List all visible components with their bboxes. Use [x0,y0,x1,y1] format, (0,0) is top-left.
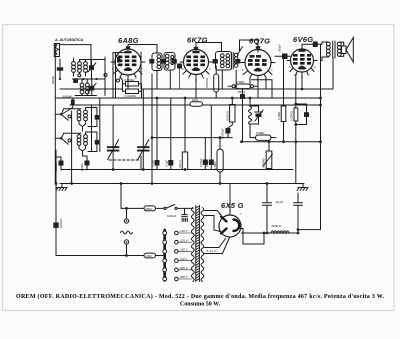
svg-text:6000 Ω: 6000 Ω [272,224,283,228]
svg-text:200pF: 200pF [51,76,55,84]
capacitor 2000pF left rail [53,184,58,256]
power transformer primary [191,208,194,282]
capacitor 5000pF [63,98,75,114]
fuse 0.5A [144,206,156,211]
svg-text:1000: 1000 [146,254,153,258]
wire left rail [55,150,57,184]
fuse 1000 lower [144,253,156,258]
label 0.1M [205,78,209,88]
svg-text:0500: 0500 [146,207,153,211]
mains terminal lower [124,240,128,244]
ring contact mid [104,74,120,83]
wire bottom rail [56,255,144,257]
choke tone box [217,138,223,184]
label 300pF [278,44,282,52]
wire verticals grid feed [105,53,128,98]
wire bus y141 [242,141,321,143]
speaker [339,38,353,63]
tube 6Q7G [241,46,275,79]
label 400pF [80,163,84,172]
svg-text:200 V: 200 V [179,266,189,270]
svg-text:6: 6 [242,68,244,72]
svg-text:0,5MΩ: 0,5MΩ [256,131,264,135]
resistor 250ohm cathode [182,98,187,170]
tube 6X5G pin numbers [219,212,242,233]
svg-text:125 V: 125 V [180,238,189,242]
label 250ohm [178,160,182,168]
tube 6K7G [180,47,212,78]
resistor 0.5M horizontal [250,135,276,140]
wire tube stems [128,52,302,184]
oscillator switch 2 [55,137,71,144]
svg-text:4: 4 [209,67,211,71]
label 200pF [51,76,55,84]
tube 6K7G label [187,36,208,45]
capacitor 0.05uF [203,138,208,170]
label 0.1M right [277,112,281,120]
wire 6Q7G pin stubs [250,78,266,90]
svg-text:1MΩ: 1MΩ [192,98,198,102]
field coil 6000ohm [271,231,289,233]
svg-text:4: 4 [314,65,316,69]
capacitor 250pF [240,89,245,142]
svg-text:0,05μF: 0,05μF [199,158,203,167]
svg-text:A. AUTOMATICA: A. AUTOMATICA [54,38,84,42]
oscillator coil 6Q7G area [249,98,252,138]
wire plate leads 6X5G [205,211,222,232]
label 0.25M volume [262,158,266,168]
wire left rail [54,44,56,184]
capacitor on bus [73,78,78,83]
capacitor 16uF first [263,184,272,234]
svg-text:280 V: 280 V [179,275,189,279]
trimmer capacitor antenna 2 [88,79,96,96]
wire bus y95 left [75,95,97,97]
label 0.1uF b [164,160,168,167]
wire fuse feed [121,184,144,209]
band switch ring 1 [78,74,81,77]
capacitor 300pF coupling [275,54,291,60]
wire bus y89 [60,88,333,90]
label 2000pF [59,218,63,228]
selector feed [156,255,164,257]
wire osc top A [61,108,97,116]
grid cap wire 6K7G [196,43,222,52]
antenna coil band 2 [80,79,89,96]
resistor 50000 vertical [230,98,235,122]
IFT1 tuning capacitors [149,59,177,64]
wire right rail [320,44,322,229]
mains switch [156,205,194,210]
label 0.25M right [289,111,293,121]
trimmer capacitor 6Q7G area [250,106,263,124]
wire bus y105 [70,104,321,106]
antenna trimmer bracket [54,44,59,57]
capacitor 400pF [83,156,90,170]
tube 6V6G [287,49,317,76]
grid cap wire 6A8G [128,45,157,54]
label 1000pF [167,214,177,218]
tube 6V6G label [293,35,313,44]
tube 6Q7G label [249,37,270,46]
IFT2 tuning capacitors [213,59,241,64]
junction dots bottom [55,182,300,257]
resistor 25M horizontal [228,84,257,89]
wire 6X5G top [229,184,231,216]
node dots y79 [59,78,98,80]
svg-text:3: 3 [135,76,137,80]
power transformer secondary [201,208,204,282]
wire heater leads 6X5G [205,238,230,254]
trimmer capacitor antenna 1 [88,60,96,79]
padder capacitor band1 [88,115,99,127]
tube 6K7G pin numbers [182,67,211,82]
label 5000pF [63,94,73,98]
wire osc right verticals [92,98,100,152]
oscillator switch 1 [55,113,71,120]
label 0.32M [125,78,135,82]
grid cap wire 6Q7G [240,40,259,51]
oscillator coil B [77,132,87,156]
wire osc left vertical [71,111,73,184]
capacitor 0.1uF c [209,105,214,170]
svg-text:250pF: 250pF [238,90,246,94]
label 4.1V [207,249,218,253]
tube 6X5G label [221,201,244,210]
label tone box [213,162,217,170]
wire osc top B [61,132,97,140]
svg-text:50000Ω: 50000Ω [226,111,230,121]
label 0.1uF a [151,160,155,167]
tube 6Q7G pin numbers [242,68,273,83]
tube 6A8G pin numbers [112,67,143,82]
resistor 1M horizontal [190,102,203,106]
label 0.042M [125,94,136,98]
capacitor 16uF second [294,193,303,233]
svg-text:0,1μF: 0,1μF [205,160,209,167]
svg-text:OREM (OFF. RADIO-ELETTROMECCAN: OREM (OFF. RADIO-ELETTROMECCANICA) - Mod… [16,293,385,300]
wire bus y233 [242,232,299,234]
svg-text:3: 3 [308,73,310,77]
resistor 0.042M under 6A8G [126,89,139,94]
mains cord squiggle [121,231,133,234]
svg-text:Consumo 50 W.: Consumo 50 W. [180,302,221,308]
wire bus y137 [152,137,232,139]
capacitor 3000pF [55,157,63,170]
wire cathode 6X5G [240,229,265,245]
wire resistor left link [120,77,126,91]
svg-text:0,1μF: 0,1μF [164,160,168,167]
IF transformer 1 [152,53,175,71]
oscillator coil A [77,108,87,132]
capacitor 0.1uF b [168,98,173,170]
svg-text:6: 6 [182,67,184,71]
wire coil top feed [86,59,106,62]
tube 6V6G pin numbers [289,65,316,79]
voltage tap terminals [175,231,192,281]
label 50000 [226,111,230,121]
tube 6A8G [111,46,145,78]
svg-text:140 V: 140 V [180,229,189,233]
label 6000ohm [272,224,283,228]
svg-text:0,1MΩ: 0,1MΩ [213,162,217,170]
antenna coil primary [72,58,76,76]
svg-text:6A8G: 6A8G [118,36,139,45]
label 0.5M [256,131,264,135]
svg-text:4: 4 [271,68,273,72]
output transformer [318,41,341,89]
svg-text:400pF: 400pF [80,163,84,172]
label 0.05uF [199,158,203,167]
svg-text:2000μF: 2000μF [59,218,63,228]
voltage tap labels [179,229,189,279]
resistor 0.1M right [281,59,286,142]
svg-text:0,042MΩ: 0,042MΩ [125,94,136,98]
svg-text:6V6G: 6V6G [293,35,313,44]
wire terminal upper link [125,207,128,219]
capacitor tone on plate [302,42,318,49]
svg-text:0,1μF: 0,1μF [151,160,155,167]
label fuse [146,207,153,211]
resistor 0.1M near 6Q7G [214,66,219,98]
svg-text:8 4,1 V: 8 4,1 V [207,249,218,253]
svg-text:0,25MΩ: 0,25MΩ [262,158,266,168]
svg-text:250 Ω: 250 Ω [178,160,182,168]
wire terminal lower link [126,244,128,255]
label 1M [192,98,198,102]
tube 6X5G [219,215,241,237]
wire bus y169 [61,169,293,171]
svg-text:6: 6 [289,65,291,69]
antenna lead wire [60,45,92,65]
svg-text:0,1MΩ: 0,1MΩ [277,112,281,120]
svg-text:300pF: 300pF [278,44,282,52]
label fuse lower [146,254,153,258]
svg-text:1000pF: 1000pF [167,214,177,218]
svg-text:16 μF: 16 μF [276,200,284,204]
mains terminal upper [124,219,128,223]
voltage selector strip [163,230,167,281]
tube 6A8G label [118,36,139,45]
capacitor grid 6A8G [117,57,120,63]
caption line 1 [16,293,385,300]
ground right [297,184,308,191]
resistor 0.32M under 6A8G [126,82,139,87]
capacitor 10000pF [225,122,232,138]
label 3000pF [54,161,58,171]
label 250pF [238,90,246,94]
wire bus y183 ground bus [60,183,304,185]
capacitor grid 6K7G [177,64,182,90]
label 0.1uF c [205,160,209,167]
antenna coil secondary [78,60,88,77]
svg-text:6K7G: 6K7G [187,36,208,45]
caption line 2 [180,302,221,308]
tuning capacitor oscillator [107,105,119,170]
capacitor 0.1uF a [155,98,160,170]
wire right rail bottom [298,229,321,231]
capacitor 200pF [57,59,63,79]
svg-text:6X5 G: 6X5 G [221,201,244,210]
label 10000pF [221,128,225,139]
tuning capacitor RF [137,89,149,170]
ground left [56,184,67,191]
svg-text:6Q7G: 6Q7G [249,37,270,46]
power transformer core [196,206,200,282]
padder capacitor band2 [88,140,99,152]
label 16uF [276,200,284,204]
svg-text:2,5MΩ: 2,5MΩ [236,80,244,84]
svg-text:160 V: 160 V [180,248,189,252]
wire gang link dashed [109,159,139,161]
junction dots [112,88,322,185]
wire bus y98 [55,97,320,99]
svg-text:31500Ω: 31500Ω [205,78,209,88]
label A. AUTOMATICA [54,38,84,42]
resistor 0.25M right [294,74,309,184]
svg-text:110 V: 110 V [180,257,188,261]
svg-text:0,25MΩ: 0,25MΩ [289,111,293,121]
IF transformer 2 [216,47,243,71]
wire 6Q7G diode out [252,80,273,98]
wire bus y79 left [73,78,106,80]
wire resistor right link [139,84,142,98]
svg-text:0,32MΩ: 0,32MΩ [125,78,135,82]
capacitor 1000pF mains [182,208,188,221]
svg-text:7: 7 [240,212,242,216]
potentiometer 0.25M volume [263,142,273,170]
label 25M [236,80,244,84]
